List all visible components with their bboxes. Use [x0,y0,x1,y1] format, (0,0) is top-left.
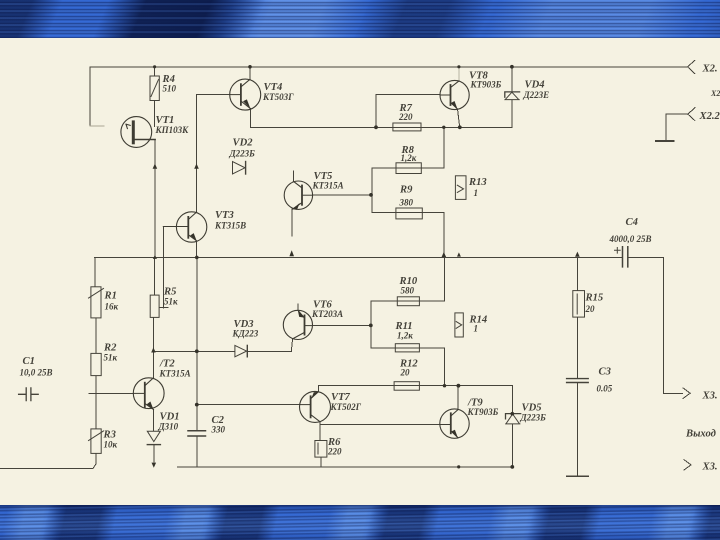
svg-text:КТ503Г: КТ503Г [262,92,294,102]
wire R11 right lead down [444,348,446,386]
transistor VT5 (KT315A) mirrored [284,181,312,209]
svg-text:220: 220 [327,447,342,457]
transistor VT8 (KT903B) [440,80,469,109]
wire R15 bottom lead to C3 [576,317,578,379]
wire VT6 base line [313,325,372,327]
capacitor C4 (polarized) [623,247,628,267]
wire bottom common rail segment 2 [178,466,513,468]
svg-text:C4: C4 [626,217,638,228]
wire VT8 emitter lead [458,109,460,127]
wire R10 line [371,300,445,302]
wire VT5 collector stub [292,171,294,181]
resistor R1 [91,287,101,318]
wire VT2 base line [89,392,134,394]
wire VT4 base column down to VT3 collector [197,95,230,212]
svg-text:КТ903Б: КТ903Б [467,407,499,417]
resistor R2 [91,353,101,375]
resistor R7 [393,123,421,131]
svg-text:Д223Б: Д223Б [520,413,547,423]
svg-text:X2.: X2. [702,64,718,75]
wire VT2 emitter to VD1 [153,410,155,432]
capacitor C2 [188,431,206,436]
svg-text:КП103К: КП103К [155,125,190,135]
wire R1-R2 link [95,318,97,354]
bottom blue band [0,505,720,540]
svg-text:R1: R1 [104,291,117,302]
wire VT1 gate lead (faded) [90,125,104,127]
svg-text:330: 330 [211,425,226,435]
junction arrow on VT4 base column [194,164,199,169]
junction dots bottom rail [457,465,460,468]
svg-text:КТ903Б: КТ903Б [470,80,502,90]
wire VT3 base tick to R5 [159,306,168,308]
junction dot VT5 base column [369,193,373,197]
wire X2.2 to ground [666,114,688,141]
wire R9 right lead down to mid rail [443,213,445,258]
resistor R6 [315,441,327,458]
svg-text:580: 580 [401,286,415,296]
top blue band [0,0,720,38]
svg-text:20: 20 [400,368,411,378]
wire VT3 emitter to rail and C2 column [196,241,198,431]
wire R2-R3 link [95,376,97,429]
wire R10 right lead up to mid rail [444,257,446,301]
svg-text:VD4: VD4 [525,80,545,91]
svg-text:51к: 51к [104,353,118,363]
svg-text:51к: 51к [164,297,178,307]
svg-text:C1: C1 [23,356,35,367]
junction dots top rail [153,65,156,68]
junction arrow R9 lead at rail [442,252,447,257]
wire VT6 top stub [297,304,299,310]
svg-text:R15: R15 [585,293,604,304]
wire VT7 collector [317,386,319,392]
wire VD5 top lead [511,386,513,414]
wire C3 bottom lead [576,383,578,477]
wire VD4 top lead from rail [511,67,513,92]
svg-text:0.05: 0.05 [597,384,613,394]
resistor R13 (trimmer body) [455,176,466,200]
svg-text:Д223Е: Д223Е [523,90,550,100]
C3 bottom end bar [567,475,589,477]
wire VD1 bottom lead [153,445,155,462]
svg-text:КТ315А: КТ315А [159,369,191,379]
wire C4 right lead, down and X3.1 [628,257,683,393]
wire R9 line [372,212,444,214]
junction arrow on VT1 column [153,164,158,169]
ground bar under X2.2 [656,140,673,142]
wire X3.1 connector chevron [683,388,690,399]
wire R5 bottom / VT2 collector column [152,317,154,378]
wire VT4 collector to rail [249,67,251,79]
wire VT1 source column down to mid rail [154,140,156,258]
wire R3 bottom hook [93,453,96,468]
diode VD5 (zener) [506,414,521,419]
svg-text:КД223: КД223 [232,329,259,339]
wire VT7 base line from C2 column [197,404,300,406]
junction small mark at rail x459 [457,252,461,256]
wire VT7 emitter / R6 column, VT9 base line [320,422,440,441]
svg-text:C3: C3 [599,367,612,378]
wire X3.2 connector chevron [684,460,691,470]
wire X2.2 connector chevron [688,108,695,121]
svg-text:Выход: Выход [685,429,716,440]
resistor R9 [396,208,422,219]
junction arrow VD1 to rail [152,463,157,468]
wire R8 right lead up [443,127,445,168]
wire R10/R11 left column [370,301,372,348]
wire R4 bottom lead [154,101,156,127]
wire top supply rail [90,66,688,68]
junction dots C2 column [195,349,199,353]
resistor R11 [395,344,419,352]
svg-text:16к: 16к [105,302,119,312]
junction dot VT6 base column [369,324,373,328]
svg-text:510: 510 [163,84,177,94]
svg-text:4000,0 25В: 4000,0 25В [609,234,652,244]
junction arrow at VD3/VT2 collector [151,347,156,352]
junction arrow R15 at rail [575,252,580,257]
resistor R8 [396,163,421,174]
diode VD2 [233,162,246,175]
svg-text:КТ502Г: КТ502Г [330,402,362,412]
wire R4 top lead [154,67,156,76]
wire left drop from rail to VT1 gate [89,67,91,126]
wire R11 line [371,347,445,349]
svg-text:X2.2: X2.2 [699,111,720,122]
wire R12 line [318,385,512,387]
wire R15 top lead [576,257,578,290]
transistor VT7 (KT502G) [300,391,331,422]
wire bottom-left common rail [0,467,93,469]
resistor R10 [397,297,419,306]
capacitor C3 [567,379,589,383]
svg-text:R9: R9 [399,185,413,196]
wire R6 bottom lead [320,457,322,467]
junction arrow VT5 emitter at rail [289,250,294,256]
svg-text:X3.: X3. [702,391,718,402]
wire VT8 collector to rail (faint) [458,67,460,81]
svg-text:1,2к: 1,2к [397,331,413,341]
wire VD5 bottom lead [511,424,513,467]
transistor VT6 (KT203A) mirrored pnp [283,310,312,339]
svg-text:X3.: X3. [702,462,718,473]
wire VT4 emitter down and R7 line [251,109,512,128]
junction dots R12 line [443,384,446,387]
junction dots mid rail [195,256,199,260]
capacitor C1 [19,388,39,401]
wire VD4 bottom lead to R7 line [511,100,513,128]
svg-text:1,2к: 1,2к [401,153,417,163]
diode VD3 [235,345,247,356]
wire R7 branch up to VT8 base [376,95,440,128]
svg-text:1: 1 [474,188,479,198]
svg-text:X2: X2 [710,89,720,98]
resistor R14 (trimmer body) [455,313,463,337]
transistor VT9 (KT903B) [440,409,469,438]
diode VD4 (zener) [505,92,520,97]
svg-text:R13: R13 [468,177,487,188]
svg-text:Д310: Д310 [158,422,179,432]
junction arrow VT1 gate rail mark [153,255,157,259]
svg-text:Д223Б: Д223Б [229,149,256,159]
transistor VT2 (KT315A) [133,378,164,409]
resistor R12 [394,382,419,391]
wire VT9 collector [457,386,459,410]
svg-text:VT3: VT3 [215,210,235,221]
wire R1 top lead [94,257,96,286]
resistor R3 [91,429,101,454]
svg-text:КТ315А: КТ315А [312,181,344,191]
svg-text:220: 220 [398,112,413,122]
wire VT6 bottom lead [291,339,292,352]
transistor VT3 (KT315B) [176,212,206,242]
junction dots R7 line [374,125,378,129]
resistor R5 [150,295,159,317]
wire VT5 emitter lead [291,209,293,236]
wire C2 bottom lead [196,436,198,467]
svg-text:VD2: VD2 [233,138,254,149]
svg-text:КТ315В: КТ315В [214,221,246,231]
diode VD1 [147,431,160,441]
svg-text:1: 1 [474,324,479,334]
resistor R15 [573,291,585,318]
wire R8 left column between R8 and R9 lines [371,168,373,213]
svg-text:10к: 10к [104,440,118,450]
svg-text:КТ203А: КТ203А [311,309,343,319]
svg-text:10,0 25В: 10,0 25В [20,368,53,378]
wire mid rail [95,256,622,258]
wire R8 line [372,167,444,169]
svg-text:20: 20 [585,304,596,314]
wire VD3 line [153,350,291,352]
resistor R4 [150,76,159,101]
wire VT3 base down column [162,227,164,308]
transistor VT1 (KP103K JFET) [121,117,152,148]
transistor VT4 (KT503G) [230,79,261,110]
svg-text:380: 380 [399,198,414,208]
wire X2.1 connector chevron [688,60,695,73]
wire VT5 base line to column [312,194,372,196]
wire R5 top lead [154,257,156,295]
